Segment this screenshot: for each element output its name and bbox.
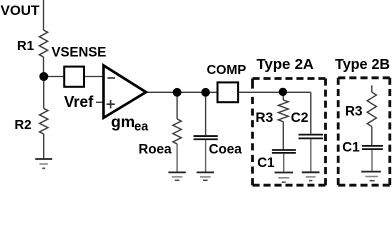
svg-text:ea: ea	[134, 119, 149, 133]
svg-text:Coea: Coea	[209, 142, 243, 157]
svg-text:C2: C2	[291, 110, 309, 125]
svg-text:R3: R3	[345, 104, 363, 119]
svg-text:Type 2B: Type 2B	[335, 57, 390, 73]
svg-text:R1: R1	[17, 38, 35, 53]
svg-text:Type 2A: Type 2A	[257, 56, 314, 73]
svg-text:VOUT: VOUT	[1, 2, 40, 18]
svg-text:C1: C1	[342, 139, 360, 154]
svg-text:Vref: Vref	[64, 94, 94, 111]
svg-text:R2: R2	[15, 117, 32, 132]
svg-text:gm: gm	[111, 114, 135, 131]
svg-text:COMP: COMP	[207, 62, 247, 77]
svg-text:VSENSE: VSENSE	[52, 45, 107, 60]
svg-text:Roea: Roea	[139, 142, 173, 157]
svg-text:C1: C1	[257, 155, 275, 170]
svg-text:R3: R3	[256, 110, 274, 125]
